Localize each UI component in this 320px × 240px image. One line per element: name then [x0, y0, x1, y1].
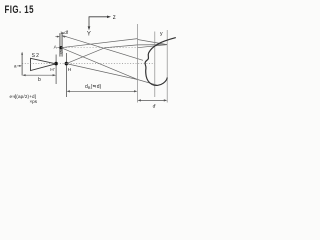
ray from A rising: [61, 39, 138, 48]
svg-text:y: y: [160, 31, 163, 37]
A leader: [57, 47, 59, 49]
d' dimension: [139, 99, 166, 101]
svg-text:S: S: [60, 50, 63, 56]
svg-text:H: H: [68, 67, 72, 73]
image height line: [154, 32, 156, 98]
a leader arrow: [17, 65, 20, 67]
lens band (hatched): [60, 33, 62, 56]
wavy curve: [145, 38, 176, 86]
ray from H rising (bends at dotted level): [66, 45, 137, 64]
ray from A descending: [61, 48, 138, 80]
df thickness dimension: [55, 36, 58, 38]
svg-text:×ps: ×ps: [30, 99, 38, 104]
field lens line: [137, 24, 139, 103]
svg-text:≒df: ≒df: [60, 30, 68, 35]
ray from band top descending: [62, 35, 143, 60]
node A dot: [59, 46, 62, 49]
dotted line from A: [63, 47, 138, 49]
refracted ray bottom: [138, 80, 158, 86]
node H dot: [65, 62, 69, 66]
svg-text:Y: Y: [87, 31, 91, 37]
refracted ray upper: [138, 40, 168, 45]
object arrowhead: [21, 52, 23, 55]
ray from H descending: [66, 64, 137, 80]
svg-text:dB(≒d): dB(≒d): [85, 84, 102, 90]
object line (vertical, with a): [21, 53, 23, 76]
svg-text:b: b: [38, 77, 41, 83]
principal plane H line: [65, 53, 67, 97]
refracted ray lower: [138, 45, 168, 48]
dB dimension: [68, 90, 136, 92]
principal plane H' line: [55, 55, 57, 85]
refracted ray flat: [138, 44, 168, 46]
svg-text:S2: S2: [32, 53, 41, 59]
optical axis (dashed): [22, 63, 155, 65]
wedge S2: [31, 58, 56, 70]
svg-text:z: z: [113, 15, 116, 21]
svg-text:FIG. 15: FIG. 15: [5, 4, 35, 17]
svg-text:H’: H’: [50, 67, 55, 73]
axes z/Y: [88, 16, 111, 31]
b dimension: [24, 74, 55, 76]
node H' dot: [54, 62, 58, 66]
image plane line: [166, 30, 168, 103]
svg-text:d’: d’: [153, 104, 157, 110]
